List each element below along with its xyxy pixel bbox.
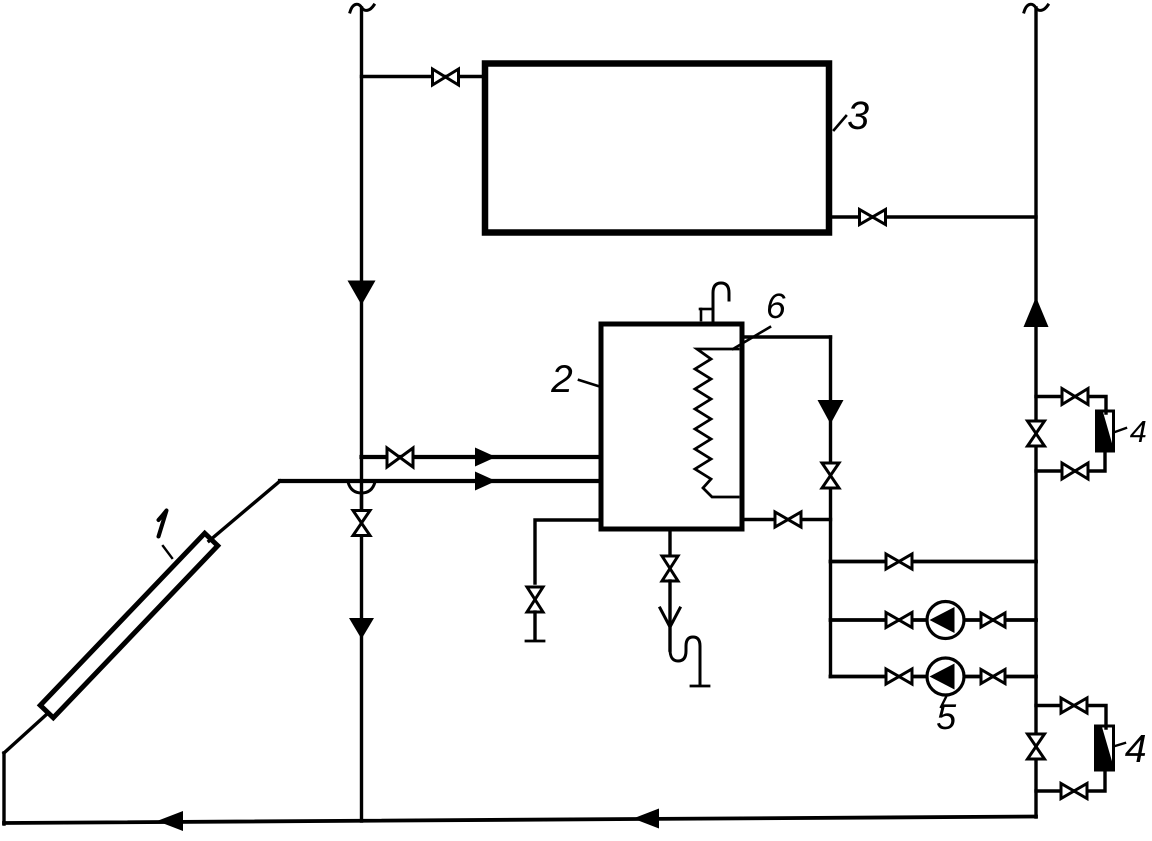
label 2 [551,365,572,392]
leader for label 4 upper [1115,428,1126,432]
valve on tank 2 lower right [775,512,801,527]
wire coil top to mid riser [744,335,831,338]
valve on right riser between radiator B branches [1028,734,1045,759]
radiator 4 (upper) [1097,411,1114,451]
wire bypass line pumps top [831,560,1037,564]
pipe crossing dip at left riser [348,482,375,493]
vent pipe on tank 2 top [713,283,729,322]
flow arrow up on right riser [1024,297,1049,327]
siphon outlet tick [691,685,709,688]
leader for label 1 [163,546,172,558]
label 1 [159,511,167,537]
left drain end tick [526,640,544,643]
valve on right riser between radiator A branches [1028,421,1045,446]
wire radiator A top branch [1036,397,1106,414]
label 6 [768,293,786,318]
wire left drain tail [533,612,536,640]
radiator 4 (lower) [1096,726,1114,770]
flow arrow right on riser branch [475,448,496,467]
wire collector left drop [2,753,5,824]
valve radiator B top [1061,698,1087,713]
vent tick vertical [700,309,703,320]
wire pump line 2 [831,675,1037,679]
valve on left riser below crossing [353,511,370,536]
flow arrow down on left riser lower [349,618,374,639]
flow arrow right on collector supply [475,472,496,491]
valve radiator A bottom [1062,463,1088,479]
wire collector top diagonal [209,481,280,541]
wire riser branch to tank 2 upper [362,455,600,459]
wire bottom return line [4,817,1036,824]
valve pump line 2 left [886,669,912,684]
open arrow on bottom drain [660,608,680,627]
flow arrow down on left riser upper [348,281,376,306]
label 5 [937,704,956,729]
wire stub from crossing to valve [360,493,363,511]
wire left riser [360,8,363,821]
pump 5b [927,658,964,695]
valve on mid riser [822,463,839,488]
valve radiator A top [1062,389,1088,405]
vent break symbol right riser top [1024,4,1048,12]
wire pump line 1 [831,618,1037,622]
tank 3 [485,64,829,233]
valve on bypass line [886,554,912,569]
leader for label 3 [834,116,846,130]
wire collector bottom diagonal [4,714,47,753]
flow arrow left on return line left [157,811,183,831]
valve on tank 3 inlet [433,69,459,85]
valve on bottom drain [662,556,678,581]
valve radiator B bottom [1061,784,1087,799]
wire right riser [1034,8,1037,817]
vent tick horizontal [700,308,712,311]
vent break symbol left riser top [350,4,374,12]
wire collector supply horizontal to tank 2 [280,479,599,483]
leader for label 2 [579,380,598,386]
label 4 lower [1125,735,1145,762]
wire mid riser [829,337,832,677]
flow arrow down on mid riser [818,400,844,424]
pump 5a [927,602,964,639]
valve pump line 2 right [981,670,1005,684]
valve pump line 1 left [886,613,912,628]
label 4 upper [1130,421,1146,442]
valve pump line 1 right [981,613,1005,627]
valve on left drain [527,587,543,612]
wire tank 3 right to right riser [832,215,1036,218]
leader for label 5 [941,695,947,707]
wire to tank 3 left [362,75,484,78]
wire tank 2 lower left drain [535,520,599,583]
valve on riser branch [387,448,413,467]
wire radiator B bottom branch [1036,768,1105,791]
siphon trap on bottom drain [670,637,700,684]
leader for label 6 [733,327,770,349]
tank 2 [601,324,742,529]
wire tank 2 bottom drain [668,531,671,557]
wire radiator B top branch [1036,706,1106,729]
label 3 [848,101,869,129]
wire tank 2 lower right to mid riser [744,518,831,521]
wire bottom drain tail [668,581,671,650]
heating coil 6 [695,349,738,497]
valve on tank 3 outlet [860,210,886,225]
leader for label 4 lower [1115,743,1125,746]
flow arrow left on return line middle [633,809,659,829]
solar collector 1 [40,533,217,718]
wire radiator A bottom branch [1036,449,1105,471]
